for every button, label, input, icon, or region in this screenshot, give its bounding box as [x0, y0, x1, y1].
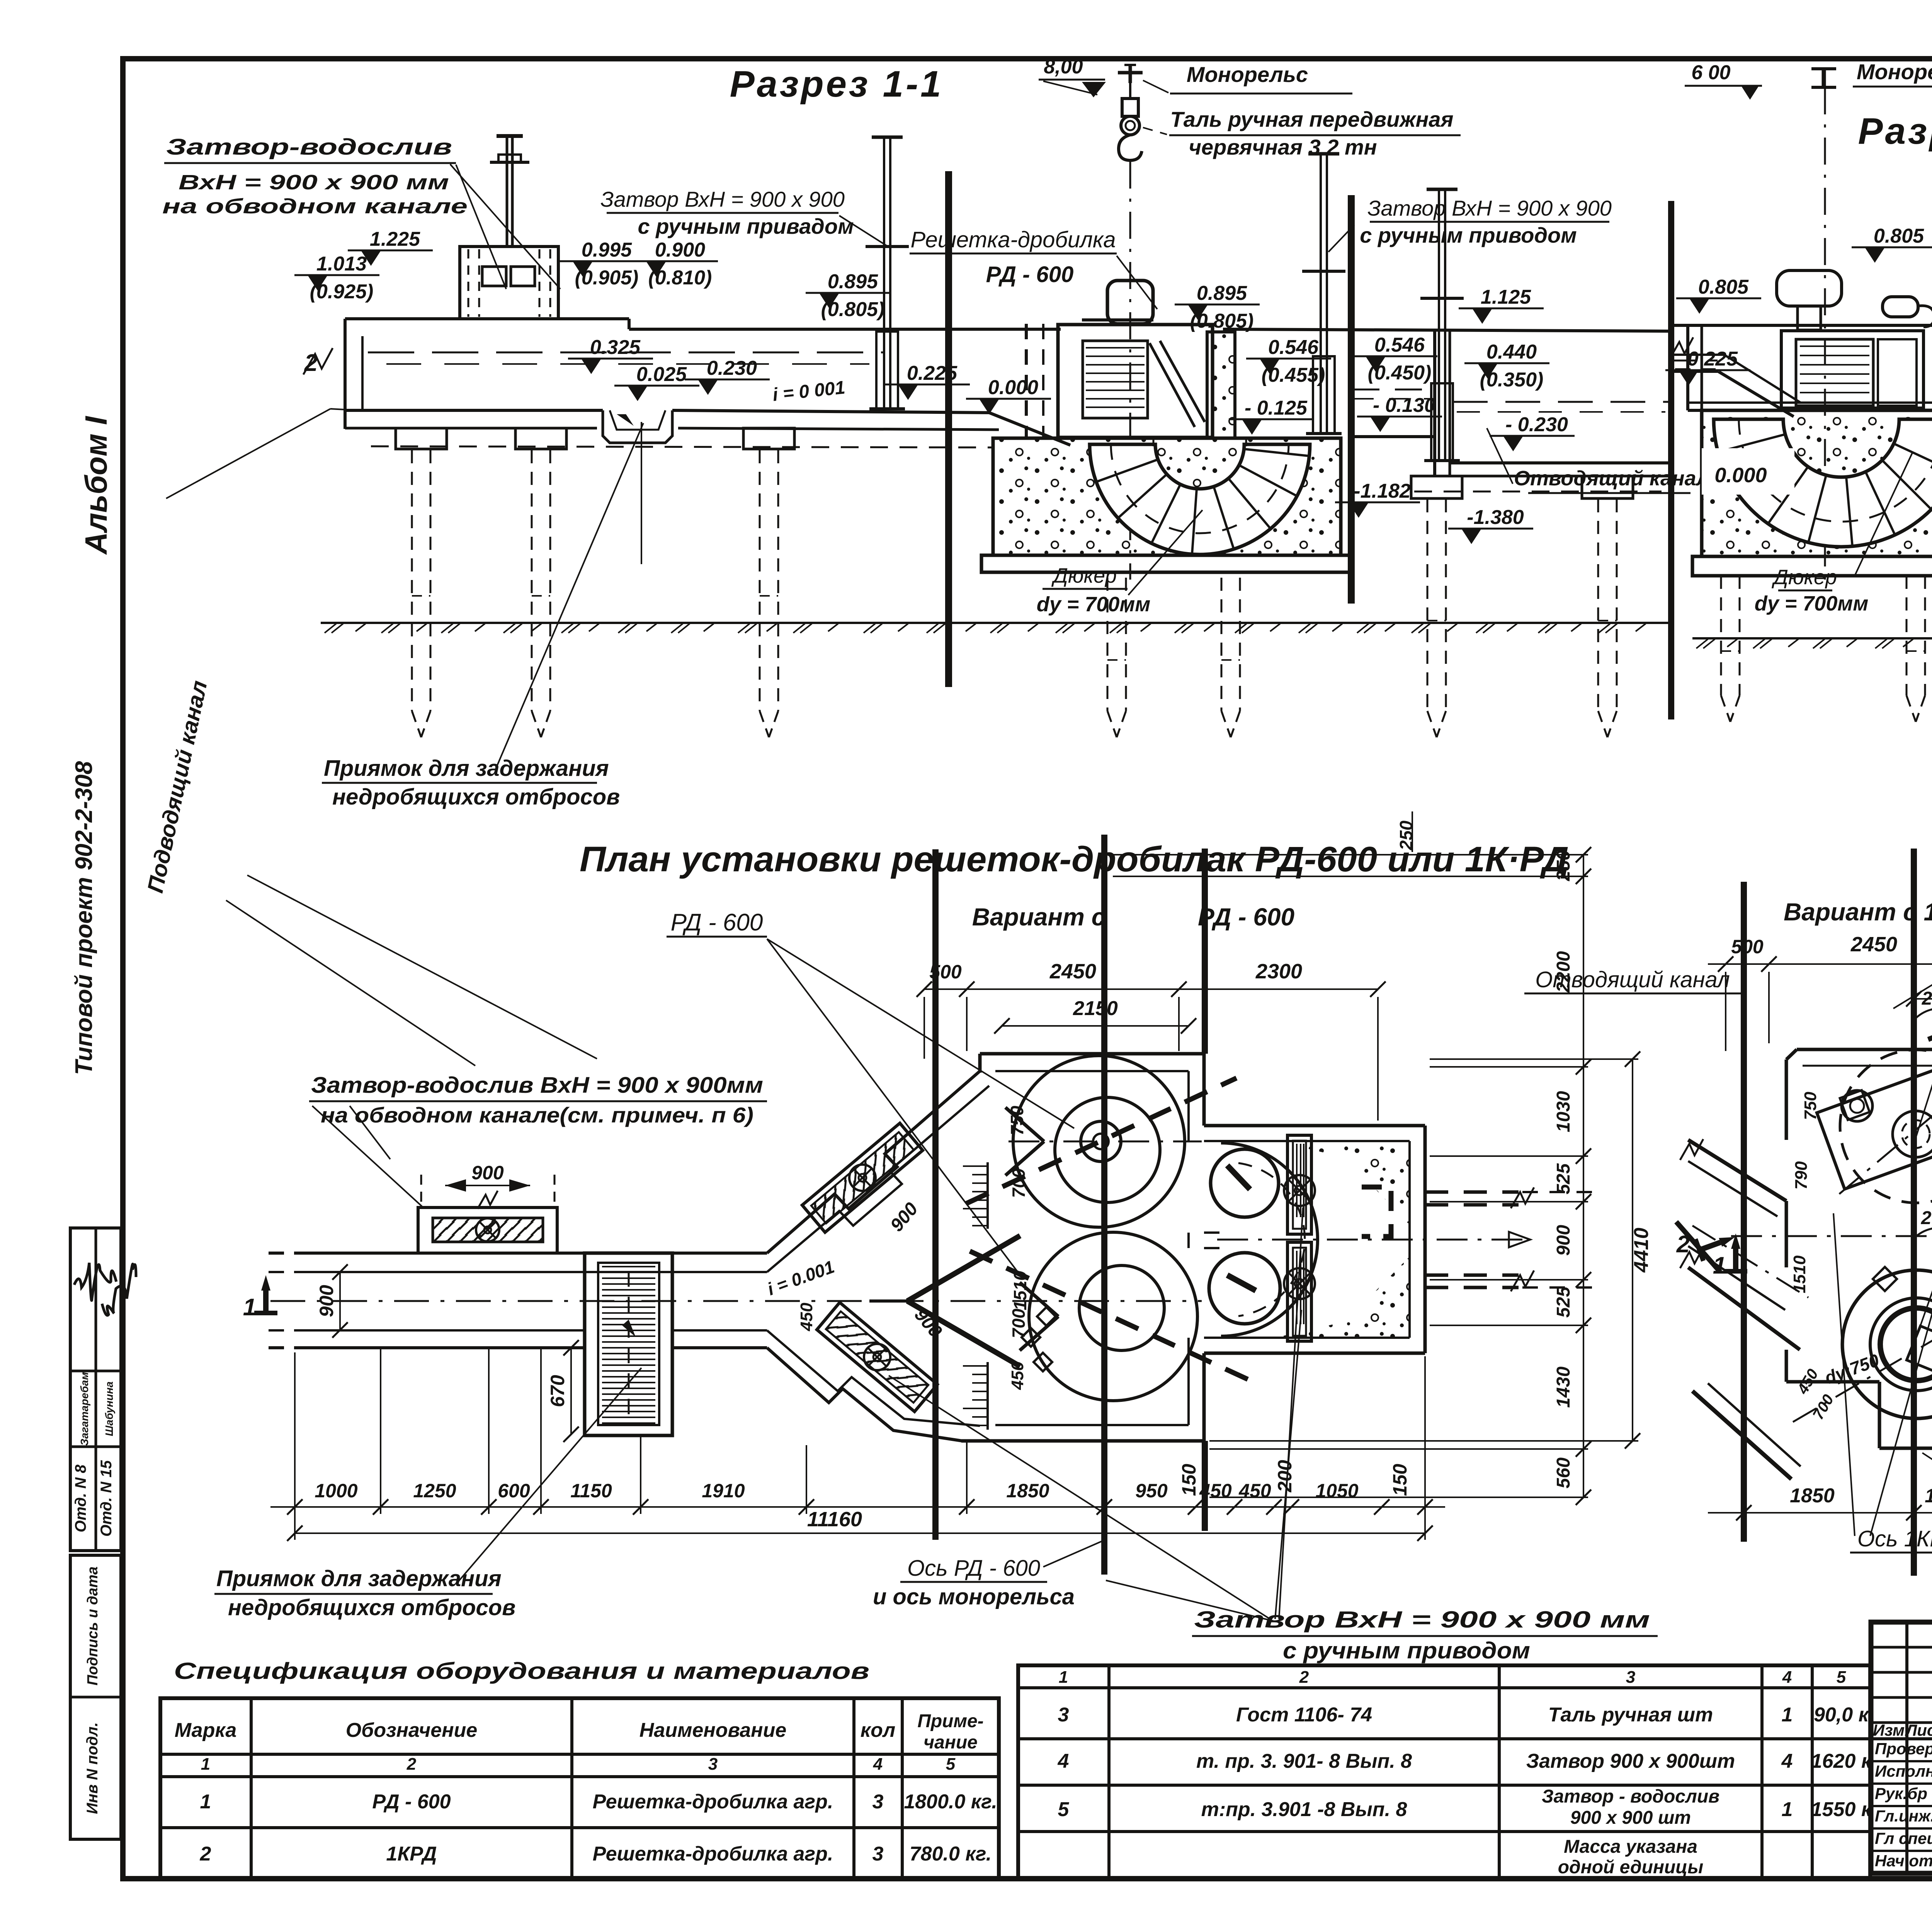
svg-text:Затвор ВхН = 900 х 900: Затвор ВхН = 900 х 900 [1367, 196, 1612, 220]
svg-text:450: 450 [1199, 1480, 1232, 1502]
svg-text:2150: 2150 [1073, 997, 1118, 1020]
svg-text:Разрез 1-1: Разрез 1-1 [730, 63, 944, 105]
svg-text:1850: 1850 [1790, 1485, 1835, 1507]
svg-text:1: 1 [201, 1755, 210, 1774]
svg-text:одной единицы: одной единицы [1558, 1857, 1704, 1878]
svg-text:1800.0 кг.: 1800.0 кг. [904, 1791, 997, 1813]
svg-text:РД - 600: РД - 600 [372, 1791, 451, 1813]
svg-text:1КРД: 1КРД [386, 1843, 437, 1865]
svg-text:Затвор-водослив ВхН = 900 х 9: Затвор-водослив ВхН = 900 х 900мм [311, 1073, 763, 1098]
svg-text:2: 2 [304, 350, 318, 376]
svg-text:1550 к: 1550 к [1811, 1798, 1872, 1821]
svg-text:Отд. N 8: Отд. N 8 [72, 1464, 89, 1532]
svg-text:525: 525 [1553, 1163, 1574, 1194]
svg-text:с ручным привадом: с ручным привадом [638, 214, 854, 238]
svg-text:500: 500 [929, 961, 962, 983]
svg-text:Обозначение: Обозначение [346, 1719, 478, 1742]
svg-text:900: 900 [471, 1162, 504, 1184]
svg-text:Вариант с 1КРД: Вариант с 1КРД [1784, 898, 1932, 926]
svg-text:4410: 4410 [1630, 1228, 1653, 1273]
svg-text:Вариант с: Вариант с [972, 903, 1105, 931]
svg-text:(0.455): (0.455) [1262, 364, 1325, 386]
svg-text:3: 3 [872, 1843, 884, 1865]
svg-text:1.125: 1.125 [1481, 286, 1531, 308]
svg-text:Монорельс: Монорельс [1187, 62, 1308, 87]
svg-text:-1.380: -1.380 [1467, 506, 1524, 529]
svg-text:2: 2 [1676, 1231, 1690, 1258]
svg-text:200: 200 [1274, 1460, 1296, 1493]
svg-text:Инв N подл.: Инв N подл. [84, 1722, 101, 1814]
svg-text:3: 3 [872, 1791, 884, 1813]
svg-text:dy = 700мм: dy = 700мм [1755, 592, 1869, 615]
svg-text:20°: 20° [1922, 988, 1932, 1009]
svg-text:0.325: 0.325 [590, 336, 641, 359]
svg-text:3: 3 [1626, 1668, 1635, 1687]
svg-text:790: 790 [1792, 1161, 1811, 1190]
svg-text:0.900: 0.900 [655, 239, 705, 261]
svg-text:Рук.бр: Рук.бр [1875, 1784, 1927, 1803]
svg-text:РД - 600: РД - 600 [1198, 903, 1294, 931]
svg-text:РД - 600: РД - 600 [986, 262, 1074, 287]
svg-text:Дюкер: Дюкер [1051, 564, 1117, 587]
svg-text:Затвор 900 х 900шт: Затвор 900 х 900шт [1526, 1750, 1735, 1772]
svg-text:0.025: 0.025 [636, 363, 687, 386]
svg-text:8,00: 8,00 [1044, 56, 1083, 78]
svg-text:(0.905): (0.905) [575, 267, 639, 289]
svg-text:Лист: Лист [1905, 1721, 1932, 1739]
svg-text:900 х 900 шт: 900 х 900 шт [1570, 1808, 1691, 1828]
svg-text:Таль ручная шт: Таль ручная шт [1548, 1704, 1713, 1726]
svg-text:0.546: 0.546 [1268, 336, 1319, 359]
svg-text:(0.805): (0.805) [821, 298, 885, 321]
svg-text:2450: 2450 [1850, 933, 1897, 956]
svg-text:с ручным приводом: с ручным приводом [1360, 223, 1577, 247]
svg-text:Решетка-дробилка агр.: Решетка-дробилка агр. [593, 1843, 833, 1865]
svg-text:РД - 600: РД - 600 [671, 909, 763, 936]
svg-text:Шабунина: Шабунина [103, 1381, 115, 1436]
svg-text:1430: 1430 [1553, 1366, 1574, 1408]
svg-text:на обводном канале: на обводном канале [162, 195, 468, 218]
svg-text:3: 3 [1058, 1704, 1069, 1726]
svg-text:0.805: 0.805 [1874, 225, 1924, 247]
svg-text:Разрез 2-2: Разрез 2-2 [1858, 111, 1932, 152]
svg-text:(0.925): (0.925) [310, 281, 374, 303]
svg-text:1000: 1000 [315, 1480, 357, 1502]
svg-text:90,0 к: 90,0 к [1814, 1704, 1870, 1726]
svg-text:5: 5 [1837, 1668, 1846, 1687]
svg-text:Нач отд: Нач отд [1875, 1852, 1932, 1870]
svg-text:(0.450): (0.450) [1368, 362, 1432, 384]
svg-text:150: 150 [1389, 1464, 1411, 1496]
svg-text:0.895: 0.895 [828, 270, 878, 293]
svg-text:2: 2 [406, 1755, 417, 1774]
svg-text:2200: 2200 [1553, 951, 1574, 993]
svg-text:1: 1 [1782, 1704, 1793, 1726]
svg-text:4: 4 [1782, 1668, 1792, 1687]
svg-text:Спецификация оборудован: Спецификация оборудования и материалов [174, 1658, 869, 1684]
svg-text:чание: чание [923, 1732, 978, 1753]
svg-text:4: 4 [873, 1755, 883, 1774]
svg-text:1.225: 1.225 [370, 228, 420, 250]
svg-text:0.225: 0.225 [907, 362, 957, 384]
svg-text:450: 450 [1008, 1361, 1027, 1390]
svg-text:0.546: 0.546 [1374, 334, 1425, 356]
svg-text:900: 900 [316, 1285, 337, 1317]
svg-text:2: 2 [200, 1843, 211, 1865]
svg-text:dy = 700мм: dy = 700мм [1037, 593, 1151, 616]
svg-text:т. пр. 3. 901- 8 Вып. 8: т. пр. 3. 901- 8 Вып. 8 [1196, 1750, 1412, 1772]
svg-text:Приямок для задержания: Приямок для задержания [324, 756, 609, 781]
svg-text:Загатаребам: Загатаребам [78, 1372, 90, 1446]
svg-text:Дюкер: Дюкер [1772, 566, 1837, 589]
svg-text:т:пр. 3.901 -8 Вып. 8: т:пр. 3.901 -8 Вып. 8 [1201, 1798, 1407, 1821]
svg-text:с ручным приводом: с ручным приводом [1283, 1638, 1530, 1663]
svg-text:1050: 1050 [1315, 1480, 1358, 1502]
svg-text:Масса указана: Масса указана [1564, 1837, 1697, 1857]
svg-text:недробящихся отбросов: недробящихся отбросов [228, 1595, 515, 1620]
svg-text:Провер: Провер [1875, 1740, 1932, 1758]
svg-text:Решетка-дробилка агр.: Решетка-дробилка агр. [593, 1791, 833, 1813]
svg-text:Затвор ВхН = 900 х 900 мм: Затвор ВхН = 900 х 900 мм [1194, 1607, 1650, 1633]
svg-text:Гл спец: Гл спец [1875, 1829, 1932, 1847]
svg-text:1.013: 1.013 [316, 253, 367, 275]
svg-text:0.440: 0.440 [1486, 341, 1537, 363]
svg-text:2: 2 [1299, 1668, 1309, 1687]
svg-text:Наименование: Наименование [639, 1719, 787, 1742]
svg-text:0.805: 0.805 [1698, 276, 1749, 298]
svg-text:на обводном канале(см. примеч.: на обводном канале(см. примеч. п 6) [321, 1103, 753, 1127]
svg-text:525: 525 [1553, 1286, 1574, 1318]
svg-text:1910: 1910 [702, 1480, 745, 1502]
svg-text:Решетка-дробилка: Решетка-дробилка [910, 227, 1116, 252]
svg-text:5: 5 [946, 1755, 956, 1774]
svg-text:- 0.125: - 0.125 [1245, 397, 1308, 419]
svg-text:600: 600 [498, 1480, 530, 1502]
svg-text:5: 5 [1058, 1798, 1070, 1821]
svg-text:ВхН = 900 х 900 мм: ВхН = 900 х 900 мм [179, 171, 449, 194]
svg-text:Ось 1КРД: Ось 1КРД [1857, 1526, 1932, 1551]
svg-text:900: 900 [1553, 1225, 1574, 1256]
svg-text:Подпись и дата: Подпись и дата [85, 1566, 101, 1685]
svg-text:червячная 3 2 тн: червячная 3 2 тн [1189, 135, 1377, 159]
svg-text:Отд. N 15: Отд. N 15 [98, 1460, 115, 1536]
svg-text:(0.805): (0.805) [1190, 310, 1254, 332]
svg-text:Ось РД - 600: Ось РД - 600 [907, 1556, 1040, 1581]
svg-text:0.230: 0.230 [707, 357, 757, 379]
svg-text:1850: 1850 [1006, 1480, 1049, 1502]
svg-text:Гост 1106- 74: Гост 1106- 74 [1236, 1704, 1372, 1726]
svg-text:150: 150 [1178, 1464, 1200, 1496]
svg-text:1620 к: 1620 к [1811, 1750, 1872, 1772]
svg-text:Монорельс: Монорельс [1857, 60, 1932, 84]
svg-text:Приме-: Приме- [917, 1711, 983, 1731]
svg-text:-1.182: -1.182 [1354, 480, 1411, 502]
svg-text:1150: 1150 [570, 1480, 612, 1502]
svg-text:1: 1 [243, 1294, 256, 1321]
svg-text:0.000: 0.000 [988, 376, 1038, 399]
svg-text:950: 950 [1135, 1480, 1168, 1502]
svg-text:Изм: Изм [1873, 1721, 1905, 1739]
svg-text:Таль ручная передвижная: Таль ручная передвижная [1170, 107, 1454, 131]
svg-text:450: 450 [797, 1303, 816, 1332]
svg-text:4: 4 [1781, 1750, 1793, 1772]
svg-text:Гл.инж.пр: Гл.инж.пр [1875, 1807, 1932, 1825]
svg-text:0.995: 0.995 [582, 239, 632, 261]
svg-text:560: 560 [1553, 1458, 1574, 1488]
svg-text:Затвор-водослив: Затвор-водослив [166, 134, 452, 160]
svg-text:- 0.130: - 0.130 [1373, 394, 1435, 417]
svg-text:0.000: 0.000 [1714, 464, 1767, 487]
svg-text:20°: 20° [1921, 1208, 1932, 1228]
svg-text:500: 500 [1731, 936, 1764, 957]
svg-text:Приямок для задержания: Приямок для задержания [216, 1566, 502, 1591]
svg-text:(0.350): (0.350) [1480, 369, 1544, 391]
svg-text:1: 1 [200, 1791, 211, 1813]
svg-text:1030: 1030 [1553, 1091, 1574, 1132]
svg-text:Затвор - водослив: Затвор - водослив [1542, 1786, 1719, 1807]
svg-text:1250: 1250 [413, 1480, 456, 1502]
svg-text:Типовой проект 902-2-308: Типовой проект 902-2-308 [71, 761, 97, 1075]
svg-text:780.0 кг.: 780.0 кг. [910, 1843, 992, 1865]
svg-text:2450: 2450 [1049, 960, 1096, 983]
svg-text:250: 250 [1396, 820, 1416, 850]
svg-text:0.895: 0.895 [1197, 282, 1247, 304]
svg-text:1100: 1100 [1925, 1485, 1932, 1507]
svg-text:- 0.230: - 0.230 [1505, 413, 1568, 436]
svg-text:и ось монорельса: и ось монорельса [873, 1584, 1075, 1609]
svg-text:План установки решеток-дробил: План установки решеток-дробилак РД-600 и… [580, 840, 1569, 879]
svg-text:1: 1 [1059, 1668, 1068, 1687]
svg-text:3: 3 [708, 1755, 718, 1774]
svg-text:0 225: 0 225 [1687, 348, 1738, 370]
svg-text:4: 4 [1058, 1750, 1069, 1772]
svg-text:кол: кол [861, 1719, 895, 1742]
svg-text:1: 1 [1782, 1798, 1793, 1821]
svg-text:750: 750 [1801, 1092, 1820, 1120]
svg-text:Марка: Марка [175, 1719, 237, 1742]
svg-text:Альбом I: Альбом I [79, 416, 113, 555]
svg-text:2300: 2300 [1255, 960, 1302, 983]
svg-text:Затвор ВхН = 900 х 900: Затвор ВхН = 900 х 900 [600, 187, 845, 211]
svg-text:670: 670 [547, 1375, 568, 1407]
svg-text:недробящихся отбросов: недробящихся отбросов [332, 784, 620, 810]
svg-text:(0.810): (0.810) [648, 267, 712, 289]
svg-text:450: 450 [1238, 1480, 1271, 1502]
svg-text:6 00: 6 00 [1691, 61, 1730, 84]
svg-text:11160: 11160 [807, 1508, 862, 1531]
svg-text:Исполн: Исполн [1875, 1762, 1932, 1780]
svg-text:Отводящий канал: Отводящий канал [1514, 467, 1709, 490]
